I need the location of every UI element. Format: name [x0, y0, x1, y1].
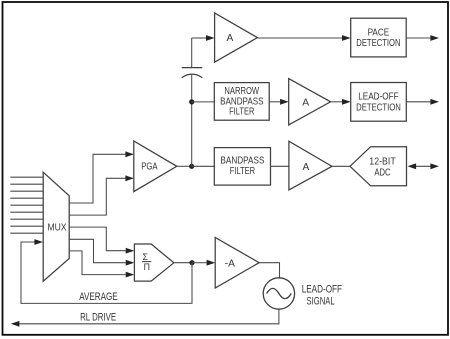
label lead-off signal [302, 283, 343, 307]
node narrow bandpass tap dot [189, 99, 194, 104]
svg-text:PGA: PGA [141, 162, 157, 173]
wire mux to averager input 2 [69, 239, 126, 262]
op-amp A pace [215, 13, 258, 62]
svg-text:12-BIT: 12-BIT [369, 156, 395, 167]
svg-text:ADC: ADC [374, 167, 390, 178]
wire mux to averager input 3 [69, 251, 126, 275]
wire bandpass filter to adc amp [271, 165, 289, 167]
wire pace amp to pace detection [257, 37, 342, 39]
svg-text:PACE: PACE [368, 28, 390, 39]
wire mux to pga input 2 [69, 178, 125, 215]
wire average feedback [21, 242, 192, 303]
arrow adc bidirectional bus [408, 163, 440, 169]
wire leadoff amp to leadoff detection [331, 101, 342, 103]
svg-text:A: A [302, 97, 309, 108]
op-amp PGA [134, 141, 177, 192]
block leadoff detection [351, 83, 407, 122]
svg-text:LEAD-OFF: LEAD-OFF [302, 283, 343, 295]
block 12-bit adc U2 [350, 147, 407, 186]
svg-text:-A: -A [225, 258, 235, 269]
arrow leadoff detection output [406, 101, 430, 103]
svg-text:SIGNAL: SIGNAL [307, 296, 335, 308]
mux U1 [43, 172, 69, 281]
block narrow bandpass filter [214, 83, 269, 121]
svg-text:A: A [303, 162, 310, 173]
arrow pace detection output [406, 37, 430, 39]
svg-text:AVERAGE: AVERAGE [79, 291, 118, 303]
wire rl drive [19, 309, 279, 324]
svg-text:Σ: Σ [143, 252, 149, 262]
wire node to bandpass filter [192, 165, 215, 167]
node averager output dot [189, 260, 194, 265]
svg-text:MUX: MUX [48, 222, 67, 233]
svg-text:DETECTION: DETECTION [356, 103, 401, 114]
block bandpass filter [214, 148, 270, 186]
wire mux to averager input 1 [69, 227, 126, 251]
block pace detection [351, 18, 407, 57]
svg-text:FILTER: FILTER [229, 106, 254, 117]
electrode input wires [10, 177, 43, 233]
op-amp A adc driver [289, 141, 332, 190]
wire pga output to node [177, 165, 192, 167]
op-amp -A inverting driver [215, 237, 259, 288]
wire amp to adc [332, 165, 350, 167]
svg-text:DETECTION: DETECTION [356, 38, 400, 49]
wire to pace amp [192, 37, 206, 39]
svg-text:LEAD-OFF: LEAD-OFF [358, 92, 399, 103]
source leadoff signal generator [263, 278, 294, 309]
wire inverting amp to leadoff source [259, 263, 279, 278]
op-amp A leadoff [289, 79, 331, 125]
svg-text:A: A [227, 33, 234, 44]
svg-text:FILTER: FILTER [230, 166, 255, 177]
wire averager to node [174, 262, 192, 264]
block averager sigma/n [134, 244, 173, 281]
svg-text:RL DRIVE: RL DRIVE [80, 311, 116, 323]
svg-text:BANDPASS: BANDPASS [220, 155, 264, 166]
wire node to inverting amp [192, 262, 207, 264]
capacitor C1 [182, 68, 203, 78]
svg-text:Π: Π [144, 262, 150, 272]
wire mux to pga input 1 [69, 154, 125, 203]
wire main vertical riser [191, 102, 193, 166]
wire tap to narrow bandpass filter [192, 101, 215, 103]
node pga output dot [189, 164, 194, 169]
wire narrow bandpass to leadoff amp [269, 101, 280, 103]
